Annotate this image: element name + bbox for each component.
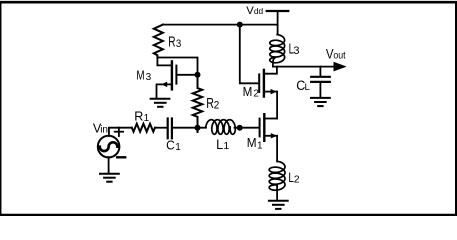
capacitor C1 bbox=[167, 119, 169, 139]
svg-text:M: M bbox=[136, 67, 144, 82]
wire M2 source / M1 drain bbox=[276, 92, 278, 119]
svg-text:2: 2 bbox=[294, 173, 300, 185]
svg-text:1: 1 bbox=[257, 141, 263, 152]
wire Vin to ground bbox=[108, 157, 110, 173]
wire L1 to M1 gate bbox=[235, 127, 259, 129]
M3 source arrow bbox=[161, 82, 167, 88]
node dot R3/R2/M3 gate bbox=[195, 72, 201, 78]
svg-text:in: in bbox=[100, 124, 108, 135]
inductor L2 bbox=[269, 161, 285, 190]
svg-text:1: 1 bbox=[144, 113, 150, 124]
plus sign bbox=[115, 128, 123, 136]
wire M2 source stub bbox=[264, 91, 277, 93]
ground (CL) bbox=[311, 98, 330, 106]
M1 source arrow bbox=[271, 133, 277, 139]
svg-text:L: L bbox=[216, 137, 223, 152]
wire top rail bbox=[163, 24, 278, 26]
svg-text:1: 1 bbox=[175, 142, 181, 153]
inductor L3 bbox=[270, 35, 285, 67]
Vdd rail bar bbox=[267, 10, 289, 12]
wire M2 drain stub + riser bbox=[264, 67, 277, 74]
wire output node bbox=[273, 66, 335, 68]
wire M1 drain stub bbox=[264, 118, 277, 120]
wire R3 bottom to gate-drain tie bbox=[157, 58, 197, 75]
svg-text:C: C bbox=[166, 138, 175, 153]
svg-text:out: out bbox=[333, 50, 345, 61]
wire CL to ground bbox=[319, 83, 321, 97]
node dot C1/R2 bbox=[195, 125, 201, 131]
wire M3 source bbox=[157, 84, 171, 98]
node dot Vdd rail / M2 gate bbox=[237, 22, 243, 28]
svg-text:M: M bbox=[243, 84, 253, 99]
minus sign bbox=[117, 156, 125, 158]
transistor M1 bbox=[263, 114, 265, 141]
M2 source arrow bbox=[271, 89, 277, 95]
resistor R2 bbox=[193, 75, 202, 132]
ground (M3) bbox=[151, 99, 170, 107]
wire M1 source stub bbox=[264, 135, 277, 137]
svg-text:1: 1 bbox=[223, 140, 229, 152]
wire Vin to R1 bbox=[109, 128, 132, 136]
wire M1 source to L2 bbox=[276, 136, 278, 162]
capacitor CL bbox=[311, 76, 330, 78]
source Vin circle bbox=[98, 136, 120, 158]
resistor R3 bbox=[154, 25, 163, 58]
Vout arrow bbox=[334, 62, 347, 72]
svg-text:R: R bbox=[206, 96, 214, 112]
ground (Vin) bbox=[100, 174, 119, 182]
wire M2 gate feed bbox=[240, 25, 258, 84]
svg-text:3: 3 bbox=[146, 72, 152, 83]
svg-text:R: R bbox=[168, 34, 175, 50]
sine wave bbox=[100, 142, 118, 151]
ground (L2) bbox=[269, 201, 288, 209]
wire L2 to ground bbox=[276, 185, 278, 200]
svg-text:M: M bbox=[247, 135, 257, 150]
svg-text:dd: dd bbox=[254, 6, 264, 16]
wire C1 to node A bbox=[173, 127, 206, 129]
wire Vdd stem bbox=[277, 12, 279, 34]
inductor L1 bbox=[206, 120, 236, 135]
svg-text:3: 3 bbox=[293, 45, 299, 57]
resistor R1 bbox=[132, 124, 155, 132]
wire CL stub bbox=[319, 67, 321, 76]
svg-text:3: 3 bbox=[176, 38, 181, 50]
svg-text:2: 2 bbox=[214, 99, 220, 111]
svg-text:2: 2 bbox=[253, 88, 259, 99]
wire M3 drain drop bbox=[157, 58, 170, 66]
wire R1 to C1 bbox=[155, 127, 167, 129]
transistor M2 bbox=[263, 70, 265, 97]
svg-text:R: R bbox=[134, 110, 143, 124]
node dot L1/M1 bbox=[237, 125, 243, 131]
wire M3 gate to node bbox=[177, 74, 197, 76]
transistor M3 (mirrored, gate right) bbox=[171, 61, 173, 89]
svg-text:L: L bbox=[305, 82, 310, 93]
